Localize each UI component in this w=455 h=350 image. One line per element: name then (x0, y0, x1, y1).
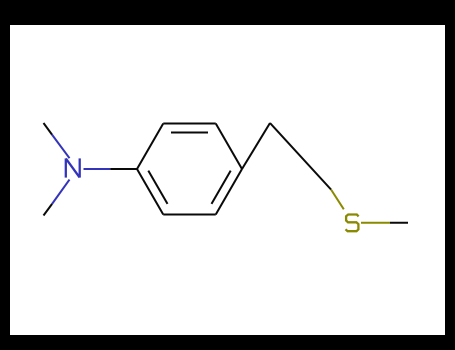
benzene ring edge L-TL (137, 124, 163, 170)
bond ring R to CH2 (black) (242, 123, 270, 169)
double bond inner line R-BR (212, 171, 231, 204)
bond CH2-S (S part, olive) (331, 190, 344, 210)
double bond inner line top (171, 132, 208, 134)
bond CH2-S (C part, black) (270, 123, 331, 190)
bond N-CH3 lower (N half, blue) (52, 180, 70, 204)
bond S-CH3 right (C half, black) (390, 222, 408, 224)
bond N-C1 ring (C half, black) (110, 168, 137, 170)
benzene ring edge BR-BL (163, 214, 216, 216)
atom label N (66, 158, 80, 177)
benzene ring edge TL-TR (163, 123, 216, 125)
double bond inner line L-BL (148, 171, 167, 204)
bond S-CH3 right (S half, olive) (361, 222, 390, 224)
bond N-C1 ring (N half, blue) (84, 168, 111, 170)
bond N-CH3 upper (C half, black) (44, 123, 53, 135)
benzene ring edge TR-R (216, 124, 242, 170)
bond N-CH3 upper (N half, blue) (52, 135, 70, 159)
bond N-CH3 lower (C half, black) (44, 204, 53, 216)
benzene ring edge BL-L (137, 169, 163, 215)
atom label S (346, 215, 359, 232)
benzene ring edge R-BR (216, 169, 242, 215)
